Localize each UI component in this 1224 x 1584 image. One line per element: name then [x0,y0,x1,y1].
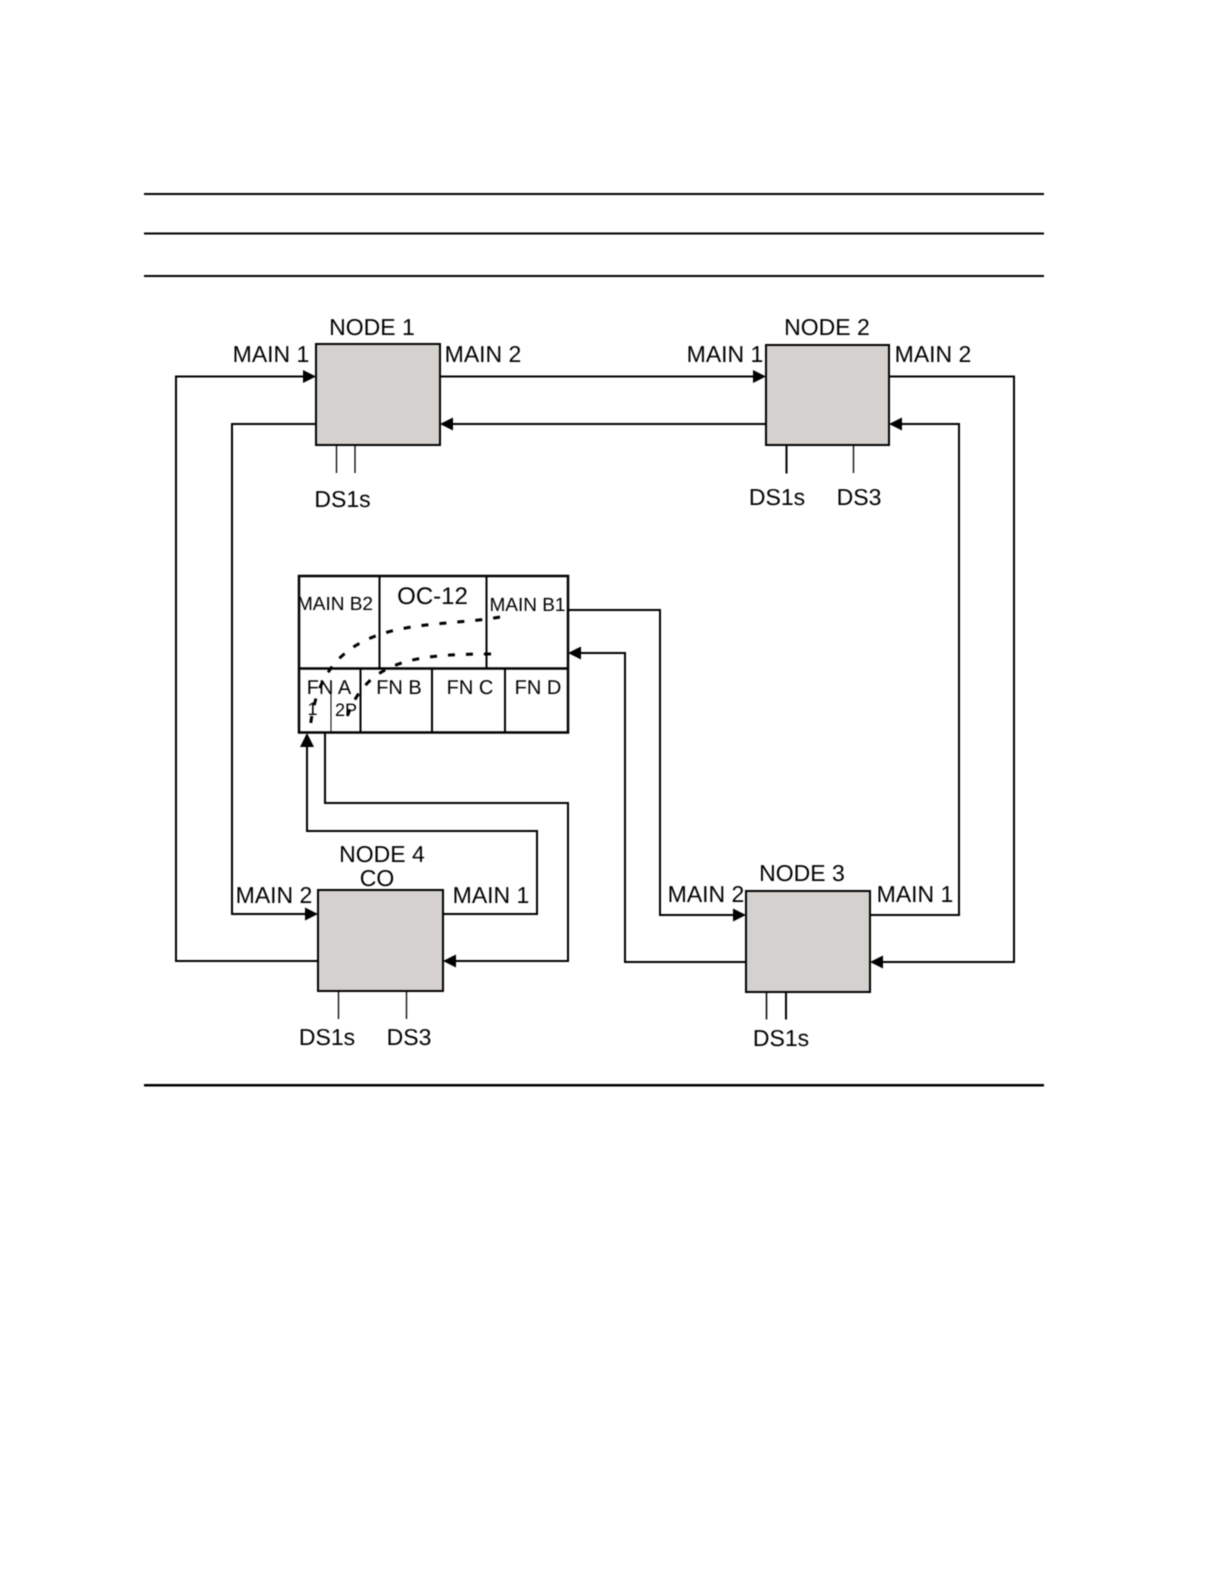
shelf sub divider 1/2P thin [330,693,332,733]
svg-text:DS1s: DS1s [299,1024,355,1050]
svg-text:1: 1 [307,699,317,719]
shelf divider FNC/FND [504,669,506,733]
wire NODE1 left to NODE4 left [232,424,316,914]
svg-text:MAIN 2: MAIN 2 [895,341,972,367]
arrowhead into NODE1 left [303,370,316,383]
svg-text:FN D: FN D [515,677,562,699]
node NODE 3 box [746,891,870,992]
svg-text:MAIN 1: MAIN 1 [687,341,764,367]
NODE4 DS1s drop line [338,991,340,1019]
svg-text:DS3: DS3 [837,484,882,510]
wire NODE2 MAIN2 to NODE3 right [878,377,1014,963]
shelf row divider [299,667,568,670]
dashed path MAIN B1 to port 2P [347,654,491,717]
wire shelf port 2P to NODE4 right [325,733,568,961]
bottom rule [144,1084,1044,1087]
OC-12 shelf outer box [299,576,568,733]
wire NODE4 MAIN1 to shelf port 1 [307,742,537,914]
arrowhead up into shelf bottom [300,733,314,747]
arrowhead into NODE1 right [440,418,453,431]
wire NODE3 left to OC-12 MAIN B1 [576,653,746,962]
svg-text:DS1s: DS1s [749,484,805,510]
wire NODE2 MAIN1 to NODE1 right [448,423,766,425]
wire NODE1 MAIN2 to NODE2 MAIN1 [440,376,758,378]
svg-text:FN A: FN A [307,677,352,699]
svg-text:MAIN 1: MAIN 1 [233,341,310,367]
svg-text:MAIN 2: MAIN 2 [668,881,745,907]
arrowhead into NODE3 left [733,909,746,922]
wire MAIN B1 out to NODE3 left [568,610,738,915]
svg-text:MAIN 2: MAIN 2 [445,341,522,367]
svg-text:NODE 1: NODE 1 [329,314,415,340]
dashed path MAIN B1 to port 1 [310,617,500,730]
svg-text:FN C: FN C [447,677,494,699]
top rule 3 [144,275,1044,277]
arrowhead into NODE2 left [753,370,766,383]
svg-text:NODE 4: NODE 4 [339,841,425,867]
svg-text:MAIN 1: MAIN 1 [877,881,954,907]
NODE2 DS1s drop line [786,445,788,474]
node NODE 2 box [766,345,889,445]
shelf divider FNB/FNC [431,669,433,733]
top rule 2 [144,233,1044,235]
svg-text:2P: 2P [335,700,357,720]
svg-text:MAIN B1: MAIN B1 [489,595,565,616]
svg-text:DS1s: DS1s [753,1025,809,1051]
svg-text:MAIN 2: MAIN 2 [236,882,313,908]
shelf divider FNA/FNB [360,669,362,733]
svg-text:DS1s: DS1s [314,486,370,512]
arrowhead into NODE3 right [870,956,883,969]
arrowhead into MAIN B1 right [568,647,581,660]
svg-text:CO: CO [360,865,395,891]
wire NODE3 MAIN1 to NODE2 right [870,424,959,915]
svg-text:NODE 3: NODE 3 [759,860,845,886]
shelf top divider OC-12 / MAIN B1 [486,576,488,669]
arrowhead into NODE2 right [889,418,902,431]
NODE1 DS1 drop lines [336,445,338,473]
NODE4 DS3 drop line [406,991,408,1019]
svg-text:NODE 2: NODE 2 [784,314,870,340]
wire NODE4 MAIN2 to NODE1 MAIN1 [176,377,318,962]
NODE3 DS1 drop lines [766,992,768,1020]
node NODE 1 box [316,344,440,445]
shelf top divider MAIN B2 / OC-12 [379,576,381,669]
NODE2 DS3 drop line [853,445,855,473]
arrowhead into NODE4 left [305,908,318,921]
node NODE 4 box [318,890,443,991]
svg-text:DS3: DS3 [387,1024,432,1050]
svg-text:MAIN B2: MAIN B2 [297,594,373,615]
svg-text:MAIN 1: MAIN 1 [453,882,530,908]
svg-text:FN B: FN B [376,677,422,699]
top rule 1 [144,193,1044,195]
arrowhead into NODE4 right [443,955,456,968]
svg-text:OC-12: OC-12 [397,583,468,610]
